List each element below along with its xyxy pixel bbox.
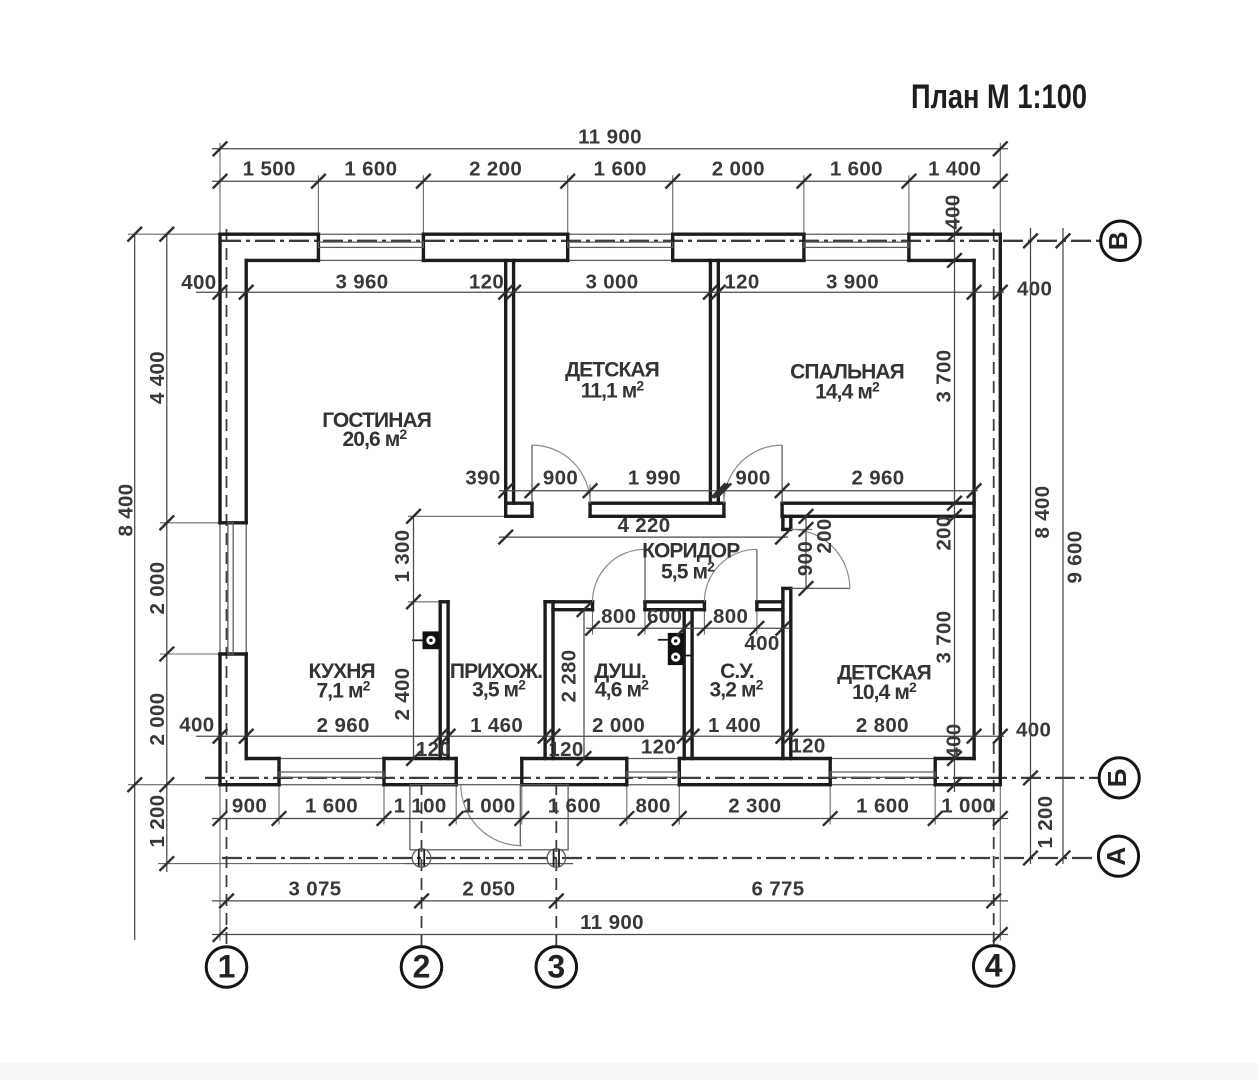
svg-text:Б: Б: [1102, 769, 1132, 788]
left exterior wall inner face: [244, 260, 247, 522]
dim row total 11900 top: [212, 148, 1008, 150]
foundation marker on axis 3: [547, 849, 566, 868]
door спальная leaf and arc: [781, 445, 783, 503]
door душ leaf and arc: [644, 549, 646, 602]
svg-text:9 600: 9 600: [1064, 530, 1087, 583]
door детская11 leaf and arc: [531, 445, 533, 503]
wall AB door jambs: [530, 503, 533, 516]
svg-text:4,6 м2: 4,6 м2: [595, 677, 649, 702]
load bearing wall AB top face: [506, 502, 532, 505]
axis bubble Б: [1099, 758, 1139, 798]
dim row R2 doors: [499, 490, 978, 492]
svg-text:2 400: 2 400: [391, 667, 414, 720]
svg-text:1 000: 1 000: [941, 795, 994, 818]
svg-text:А: А: [1101, 847, 1131, 866]
svg-text:900: 900: [735, 467, 770, 490]
window T1 glazing: [318, 242, 423, 247]
svg-text:2 960: 2 960: [851, 467, 904, 490]
window T3 glazing: [804, 242, 909, 247]
svg-text:1 460: 1 460: [470, 714, 523, 737]
svg-text:3 900: 3 900: [826, 271, 879, 294]
svg-text:900: 900: [232, 795, 267, 818]
svg-text:120: 120: [469, 271, 504, 294]
svg-text:14,4 м2: 14,4 м2: [815, 379, 880, 404]
svg-text:2 000: 2 000: [592, 714, 645, 737]
axis line Б dash-dot: [205, 777, 1099, 779]
axis 3 dashed line: [555, 783, 557, 947]
left exterior wall outer face: [218, 234, 221, 523]
svg-text:4 400: 4 400: [146, 351, 169, 404]
bottom exterior wall outer face: [220, 783, 279, 786]
svg-text:800: 800: [635, 795, 670, 818]
wall V5 прихожая-душ: [543, 602, 546, 759]
kitchen vertical dim 1300 2400: [413, 516, 415, 758]
bottom exterior wall inner face: [246, 757, 279, 760]
top exterior wall outer face: [220, 232, 318, 235]
svg-text:1 400: 1 400: [928, 158, 981, 181]
wall V3 коридор-детская10: [781, 516, 784, 529]
svg-text:2 050: 2 050: [462, 877, 515, 900]
svg-text:1 200: 1 200: [146, 794, 169, 847]
svg-text:4: 4: [985, 947, 1003, 983]
door детская10 leaf and arc: [791, 587, 850, 589]
svg-text:11,1 м2: 11,1 м2: [581, 378, 645, 403]
svg-text:1 990: 1 990: [628, 467, 681, 490]
window W3 glazing: [830, 772, 935, 777]
svg-text:3,2 м2: 3,2 м2: [710, 677, 764, 702]
svg-text:5,5 м2: 5,5 м2: [661, 559, 715, 584]
dim row R6 lower rooms: [196, 735, 1004, 737]
corridor south wall: [545, 600, 592, 603]
svg-text:1 200: 1 200: [1034, 795, 1057, 848]
right exterior wall: [999, 234, 1002, 785]
top wall window jambs: [317, 234, 320, 260]
axis bubble 4: [973, 946, 1014, 987]
svg-text:1: 1: [218, 949, 236, 985]
svg-text:200: 200: [933, 515, 956, 550]
left dim chain 4400-2000-2000-1200: [166, 234, 168, 872]
svg-text:200: 200: [813, 518, 836, 553]
axis line B (В) dash-dot: [221, 240, 1101, 242]
axis line А dash-dot: [222, 857, 1098, 859]
svg-text:1 600: 1 600: [856, 795, 909, 818]
svg-text:1 600: 1 600: [305, 795, 358, 818]
svg-text:2 300: 2 300: [728, 795, 781, 818]
wall AB bottom face: [506, 515, 532, 518]
svg-text:900: 900: [543, 467, 578, 490]
wall V6 душ-су: [683, 610, 686, 759]
axis bubble 1: [206, 947, 247, 988]
svg-text:2 960: 2 960: [317, 714, 370, 737]
svg-text:400: 400: [1017, 278, 1052, 301]
svg-text:7,1 м2: 7,1 м2: [317, 678, 371, 703]
svg-text:ДЕТСКАЯ: ДЕТСКАЯ: [565, 359, 659, 382]
svg-text:2 000: 2 000: [146, 561, 169, 614]
svg-text:1 400: 1 400: [708, 714, 761, 737]
svg-text:3,5 м2: 3,5 м2: [472, 677, 526, 702]
svg-text:10,4 м2: 10,4 м2: [852, 679, 917, 704]
top exterior wall inner face: [246, 259, 318, 262]
svg-text:8 400: 8 400: [115, 483, 138, 536]
axis bubble 3: [536, 947, 577, 988]
спальная door vertical dim 200 900: [805, 516, 807, 588]
душ vertical dim 2280: [583, 610, 585, 759]
electrical panel кухня: [423, 631, 440, 649]
svg-text:КОРИДОР: КОРИДОР: [642, 540, 740, 563]
svg-text:2 280: 2 280: [558, 649, 581, 702]
left dim line 8400: [134, 234, 136, 940]
window W1 glazing: [279, 772, 384, 777]
svg-text:400: 400: [1016, 719, 1051, 742]
bottom wall jambs: [277, 759, 280, 785]
dim row R7 bottom openings: [212, 818, 1008, 820]
svg-text:1 500: 1 500: [243, 158, 296, 181]
svg-text:3 700: 3 700: [933, 349, 956, 402]
svg-text:3 960: 3 960: [335, 271, 388, 294]
svg-text:4 220: 4 220: [617, 514, 670, 537]
right dim line 8400 1200: [1030, 228, 1032, 864]
axis bubble В: [1101, 221, 1141, 261]
window W2 glazing: [627, 772, 680, 777]
svg-text:3 700: 3 700: [933, 610, 956, 663]
svg-text:120: 120: [641, 736, 676, 759]
axis 2 dashed line: [421, 783, 423, 947]
svg-text:1 600: 1 600: [594, 158, 647, 181]
svg-text:2: 2: [413, 948, 431, 984]
axis 4 dashed line: [993, 229, 995, 947]
axis bubble А: [1098, 836, 1138, 876]
svg-text:8 400: 8 400: [1031, 485, 1054, 538]
axis bubble 2: [401, 947, 442, 988]
right interior chain 400 3700 200 3700 400: [954, 196, 956, 792]
svg-text:120: 120: [724, 271, 759, 294]
porch slab edge: [405, 863, 573, 865]
svg-text:11 900: 11 900: [578, 125, 642, 148]
wall V4 кухня-прихожая: [439, 602, 442, 759]
door су leaf and arc: [756, 549, 758, 602]
svg-text:120: 120: [790, 735, 825, 758]
svg-text:800: 800: [601, 605, 636, 628]
svg-text:1 600: 1 600: [830, 158, 883, 181]
svg-text:6 775: 6 775: [751, 877, 804, 900]
dim row R5 corridor doors: [586, 627, 790, 629]
right dim line 9600: [1062, 228, 1064, 864]
svg-text:600: 600: [647, 605, 682, 628]
svg-text:390: 390: [465, 467, 500, 490]
svg-text:400: 400: [181, 271, 216, 294]
svg-text:3: 3: [547, 948, 565, 984]
svg-text:11 900: 11 900: [580, 911, 644, 934]
svg-text:120: 120: [416, 738, 451, 761]
svg-text:1 000: 1 000: [462, 795, 515, 818]
svg-text:20,6 м2: 20,6 м2: [343, 426, 408, 451]
svg-text:2 800: 2 800: [856, 714, 909, 737]
svg-text:400: 400: [179, 714, 214, 737]
axis 1 dashed line: [226, 229, 228, 947]
svg-text:1 600: 1 600: [548, 795, 601, 818]
dim row top chain: [212, 180, 1008, 182]
electrical panel су: [668, 633, 684, 665]
svg-text:2 000: 2 000: [712, 158, 765, 181]
svg-text:1 100: 1 100: [394, 795, 447, 818]
svg-text:В: В: [1103, 231, 1133, 250]
svg-text:1 300: 1 300: [391, 529, 414, 582]
left wall window jambs: [220, 521, 246, 524]
svg-text:1 600: 1 600: [344, 158, 397, 181]
svg-text:План М 1:100: План М 1:100: [911, 78, 1087, 116]
svg-text:400: 400: [744, 632, 779, 655]
porch step outline: [410, 785, 568, 850]
extension lines: [219, 143, 221, 234]
dim row R3 4220: [499, 536, 788, 538]
svg-text:400: 400: [943, 723, 966, 758]
svg-text:400: 400: [942, 194, 965, 229]
partition P1 гостиная-детская: [504, 260, 507, 516]
svg-text:3 075: 3 075: [288, 877, 341, 900]
foundation marker on axis 2: [412, 849, 431, 868]
svg-text:2 000: 2 000: [146, 692, 169, 745]
dim row interior R1: [196, 291, 1004, 293]
dim row R9 total 11900 bottom: [212, 934, 1008, 936]
svg-text:120: 120: [548, 738, 583, 761]
svg-text:800: 800: [713, 605, 748, 628]
svg-text:2 200: 2 200: [469, 158, 522, 181]
partition P2 детская-спальная: [709, 260, 712, 503]
svg-text:3 000: 3 000: [585, 271, 638, 294]
window T2 glazing: [568, 242, 673, 247]
window L1 glazing: [228, 523, 233, 654]
entry door leaf and arc: [519, 785, 521, 846]
dim row R8 axis spacing: [212, 900, 1008, 902]
